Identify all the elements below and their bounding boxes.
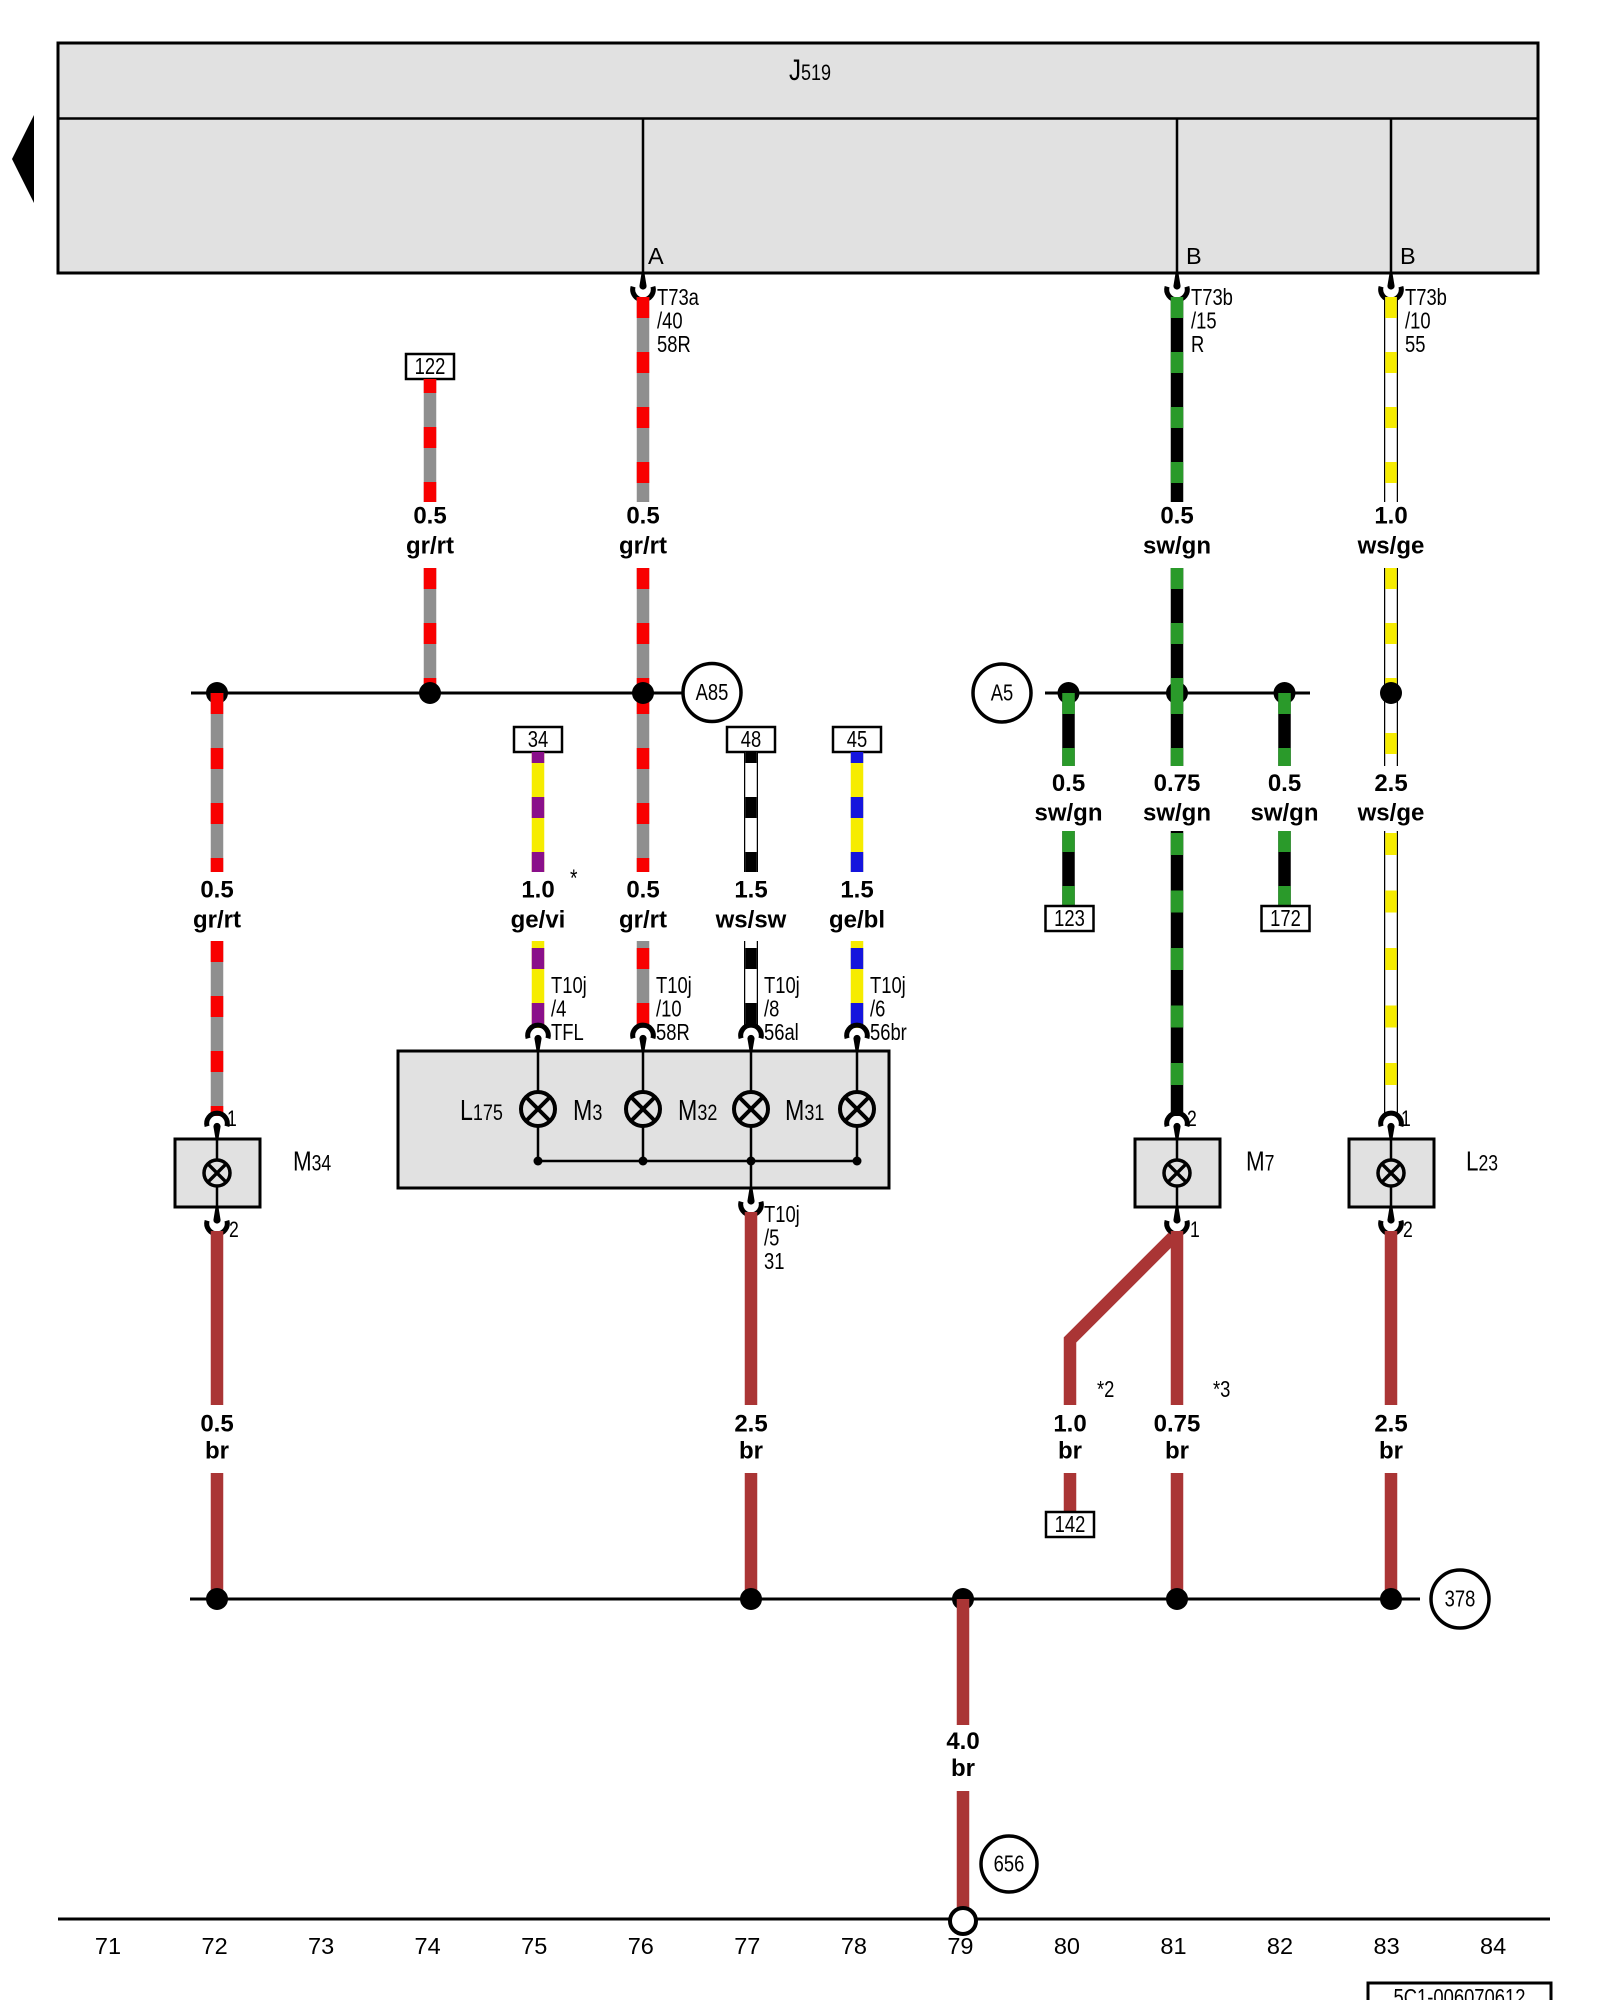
wire 0.5 sw/gn stub at (1284,693): [1278, 693, 1291, 766]
svg-text:73: 73: [308, 1933, 334, 1959]
svg-text:5C1-006070612: 5C1-006070612: [1394, 1985, 1526, 2000]
svg-text:gr/rt: gr/rt: [619, 533, 667, 560]
svg-text:77: 77: [734, 1933, 760, 1959]
wire 0.5 gr/rt to M34 pin 1: [211, 941, 224, 1116]
svg-text:378: 378: [1445, 1587, 1476, 1612]
svg-text:T10j: T10j: [551, 973, 587, 998]
terminal box 34: [514, 727, 562, 753]
svg-text:0.5: 0.5: [413, 503, 446, 530]
wire 0.5 gr/rt below node A85 toward M34: [211, 693, 224, 872]
svg-text:A85: A85: [696, 680, 729, 705]
svg-text:79: 79: [947, 1933, 973, 1959]
svg-text:1: 1: [1190, 1218, 1200, 1242]
svg-text:0.5: 0.5: [1160, 503, 1193, 530]
label 0.5 sw/gn (col 81 upper): [1143, 503, 1211, 560]
label 4.0 br: [946, 1728, 979, 1782]
left edge arrow: [12, 115, 34, 203]
svg-text:A: A: [648, 243, 664, 269]
label 0.75 br: [1154, 1411, 1201, 1465]
label 0.75 sw/gn: [1143, 770, 1211, 827]
svg-text:T10j: T10j: [870, 973, 906, 998]
svg-text:sw/gn: sw/gn: [1034, 800, 1102, 827]
junction dot (1068,693): [1058, 682, 1080, 704]
svg-text:B: B: [1186, 243, 1202, 269]
svg-text:82: 82: [1267, 1933, 1293, 1959]
connector T10j/6 56br: [847, 973, 907, 1052]
svg-text:br: br: [739, 1438, 763, 1465]
svg-text:58R: 58R: [656, 1020, 690, 1045]
wire 0.75 br to ground bus: [1171, 1473, 1184, 1599]
lamp M32: [678, 1092, 768, 1127]
svg-text:71: 71: [95, 1933, 121, 1959]
junction dot (751,1599): [740, 1588, 762, 1610]
wire 1.5 ws/sw to T10j/8: [744, 941, 758, 1028]
svg-text:/15: /15: [1191, 309, 1217, 334]
junction dot (1391,1599): [1380, 1588, 1402, 1610]
terminal box 172: [1262, 906, 1310, 932]
label 1.0 br: [1053, 1411, 1086, 1465]
svg-text:T10j: T10j: [656, 973, 692, 998]
connector pin 1 of L23: [1381, 1107, 1411, 1140]
svg-text:2: 2: [229, 1218, 239, 1242]
svg-text:/4: /4: [551, 997, 566, 1022]
connector pin 2 of M34: [207, 1206, 239, 1243]
svg-text:56al: 56al: [764, 1020, 799, 1045]
lamp M3: [573, 1092, 660, 1127]
svg-text:0.5: 0.5: [626, 503, 659, 530]
wire 4.0 br from ground bus: [957, 1599, 970, 1725]
svg-text:81: 81: [1160, 1933, 1186, 1959]
svg-text:B: B: [1400, 243, 1416, 269]
svg-text:/40: /40: [657, 309, 683, 334]
wire 0.5 br to ground bus: [211, 1473, 224, 1599]
svg-text:0.75: 0.75: [1154, 1411, 1201, 1438]
svg-text:/6: /6: [870, 997, 885, 1022]
svg-text:*2: *2: [1097, 1377, 1114, 1402]
svg-text:gr/rt: gr/rt: [193, 907, 241, 934]
connector T73a/40 58R at J519 pin A: [633, 272, 700, 358]
svg-text:34: 34: [528, 727, 548, 752]
terminal box 123: [1046, 906, 1094, 932]
svg-text:45: 45: [847, 727, 867, 752]
wire 1.5 ge/bl from box 45: [851, 752, 864, 872]
label 2.5 br (col 83): [1374, 1411, 1407, 1465]
svg-text:1.0: 1.0: [1374, 503, 1407, 530]
connector T10j/8 56al: [741, 973, 800, 1052]
wire 0.5 sw/gn from T73b/15 upper segment: [1171, 297, 1184, 502]
wire 0.5 gr/rt below node A85: [637, 693, 650, 872]
connector T10j/10 58R: [633, 973, 692, 1052]
terminal box 45: [833, 727, 881, 753]
svg-text:123: 123: [1054, 906, 1085, 931]
wire 1.0 ws/ge from T73b/10 upper segment: [1384, 297, 1398, 502]
node label 656: [981, 1836, 1037, 1892]
svg-text:ws/ge: ws/ge: [1357, 533, 1425, 560]
lamp M34: [175, 1128, 331, 1218]
svg-text:31: 31: [764, 1249, 784, 1274]
svg-text:142: 142: [1055, 1512, 1086, 1537]
svg-text:/5: /5: [764, 1226, 779, 1251]
junction dot (1391,693): [1380, 682, 1402, 704]
connector pin 1 of M7: [1167, 1206, 1200, 1243]
svg-text:72: 72: [202, 1933, 228, 1959]
svg-text:T10j: T10j: [764, 973, 800, 998]
svg-text:1.0: 1.0: [521, 877, 554, 904]
svg-text:T10j: T10j: [764, 1202, 800, 1227]
svg-text:ws/sw: ws/sw: [715, 907, 787, 934]
svg-text:1.5: 1.5: [734, 877, 767, 904]
terminal box 142: [1046, 1512, 1094, 1538]
svg-text:sw/gn: sw/gn: [1250, 800, 1318, 827]
label 1.0 ws/ge: [1357, 503, 1425, 560]
svg-text:48: 48: [741, 727, 761, 752]
svg-text:sw/gn: sw/gn: [1143, 800, 1211, 827]
wire 1.5 ws/sw from box 48: [744, 752, 758, 872]
wire 2.5 ws/ge to L23 pin 1: [1384, 831, 1398, 1116]
svg-text:122: 122: [415, 354, 446, 379]
svg-text:656: 656: [994, 1852, 1025, 1877]
node label A85: [683, 664, 741, 722]
wire 0.5 sw/gn to box 123: [1062, 831, 1075, 906]
label 1.5 ws/sw: [715, 877, 787, 934]
svg-text:/10: /10: [1405, 309, 1431, 334]
svg-text:M7: M7: [1246, 1146, 1274, 1177]
node label 378: [1431, 1570, 1489, 1628]
wire 0.5 gr/rt from box 122 to node A85: [424, 568, 437, 693]
junction dot (1177,693): [1166, 682, 1188, 704]
label 1.5 ge/bl: [829, 877, 885, 934]
svg-text:2: 2: [1403, 1218, 1413, 1242]
connector pin 2 of M7: [1167, 1107, 1197, 1140]
svg-text:/10: /10: [656, 997, 682, 1022]
svg-text:2.5: 2.5: [1374, 770, 1407, 797]
lamp L23: [1349, 1128, 1498, 1218]
svg-text:ge/vi: ge/vi: [511, 907, 566, 934]
svg-text:A5: A5: [991, 681, 1014, 706]
ground bus wire at node A85: [191, 692, 682, 695]
svg-text:172: 172: [1270, 906, 1301, 931]
svg-text:TFL: TFL: [551, 1020, 584, 1045]
wire 2.5 br from T10j/5: [745, 1212, 758, 1405]
wire 0.5 sw/gn stub at (1068,693): [1062, 693, 1075, 766]
label 0.5 gr/rt (col 76 lower): [619, 877, 667, 934]
svg-text:0.5: 0.5: [1052, 770, 1085, 797]
lamp L175: [460, 1092, 555, 1127]
svg-text:1.0: 1.0: [1053, 1411, 1086, 1438]
connector T10j/4 TFL: [528, 973, 587, 1052]
wire 1.0 br to box 142: [1064, 1473, 1077, 1512]
svg-text:0.5: 0.5: [200, 1411, 233, 1438]
svg-text:2.5: 2.5: [734, 1411, 767, 1438]
wire 2.5 br to ground bus: [745, 1473, 758, 1599]
wire 1.0 br diagonal branch from M7 pin 1: [1070, 1237, 1173, 1405]
junction dot (1177,1599): [1166, 1588, 1188, 1610]
wire 0.75 br from M7 pin 1: [1171, 1231, 1184, 1405]
junction dot (643,693): [632, 682, 654, 704]
wire 1.0 ge/vi to T10j/4: [532, 941, 545, 1028]
J519 pin B line (T73b/15): [1177, 119, 1202, 274]
label *3: [1213, 1377, 1230, 1402]
svg-text:1: 1: [1401, 1107, 1411, 1131]
svg-text:78: 78: [841, 1933, 867, 1959]
svg-text:4.0: 4.0: [946, 1728, 979, 1755]
svg-text:56br: 56br: [870, 1020, 907, 1045]
svg-text:M34: M34: [293, 1146, 331, 1177]
svg-text:sw/gn: sw/gn: [1143, 533, 1211, 560]
label 0.5 gr/rt (col 76 upper): [619, 503, 667, 560]
svg-text:br: br: [951, 1755, 975, 1782]
svg-text:1.5: 1.5: [840, 877, 873, 904]
ground point symbol: [950, 1908, 976, 1934]
wire 0.5 sw/gn to box 172: [1278, 831, 1291, 906]
svg-text:0.5: 0.5: [626, 877, 659, 904]
svg-text:*3: *3: [1213, 1377, 1230, 1402]
lamp cluster box: [398, 1051, 889, 1188]
node label A5: [973, 664, 1031, 722]
svg-text:T73a: T73a: [657, 285, 699, 310]
wire 0.5 sw/gn to node A5: [1171, 568, 1184, 693]
ground bus wire 378: [190, 1598, 1420, 1601]
connector pin 1 of M34: [207, 1107, 237, 1140]
wire 1.0 ws/ge to junction: [1384, 568, 1398, 766]
svg-text:ws/ge: ws/ge: [1357, 800, 1425, 827]
terminal box 122: [406, 354, 454, 380]
connector pin 2 of L23: [1381, 1206, 1413, 1243]
grid scale numbers 71-84: [95, 1933, 1506, 1959]
label 2.5 ws/ge: [1357, 770, 1425, 827]
wire 0.5 gr/rt to T10j/10: [637, 941, 650, 1028]
label 0.5 gr/rt (col 74): [406, 503, 454, 560]
svg-text:T73b: T73b: [1405, 285, 1447, 310]
label 0.5 sw/gn (col 80): [1034, 770, 1102, 827]
label 0.5 br (col 72): [200, 1411, 233, 1465]
svg-text:2: 2: [1187, 1107, 1197, 1131]
lamp M31: [785, 1092, 874, 1127]
svg-text:br: br: [1165, 1438, 1189, 1465]
svg-text:1: 1: [227, 1107, 237, 1131]
svg-text:83: 83: [1374, 1933, 1400, 1959]
diagram number box: [1368, 1983, 1551, 2000]
svg-text:58R: 58R: [657, 332, 691, 357]
label 0.5 sw/gn (col 82): [1250, 770, 1318, 827]
label 1.0 ge/vi: [511, 864, 578, 934]
svg-text:2.5: 2.5: [1374, 1411, 1407, 1438]
J519 pin A line: [643, 119, 664, 274]
junction dot (217,693): [206, 682, 228, 704]
connector T73b/15 R at J519 pin B: [1167, 272, 1233, 358]
svg-text:80: 80: [1054, 1933, 1080, 1959]
svg-text:T73b: T73b: [1191, 285, 1233, 310]
connector T10j/5 31: [741, 1187, 800, 1275]
svg-text:0.75: 0.75: [1154, 770, 1201, 797]
svg-text:R: R: [1191, 332, 1204, 357]
svg-text:L23: L23: [1466, 1146, 1498, 1177]
svg-text:br: br: [1058, 1438, 1082, 1465]
svg-text:74: 74: [415, 1933, 441, 1959]
svg-text:gr/rt: gr/rt: [619, 907, 667, 934]
svg-text:gr/rt: gr/rt: [406, 533, 454, 560]
svg-text:*: *: [570, 864, 578, 892]
wire 1.5 ge/bl to T10j/6: [851, 941, 864, 1028]
junction dot (217,1599): [206, 1588, 228, 1610]
svg-text:/8: /8: [764, 997, 779, 1022]
wire 0.5 br from M34 pin 2: [211, 1231, 224, 1405]
wire 2.5 br to ground bus: [1385, 1473, 1398, 1599]
label 2.5 br (col 77): [734, 1411, 767, 1465]
wire 0.5 gr/rt from box 122: [424, 379, 437, 502]
terminal box 48: [727, 727, 775, 753]
svg-text:55: 55: [1405, 332, 1425, 357]
junction dot (1284,693): [1274, 682, 1296, 704]
svg-text:75: 75: [521, 1933, 547, 1959]
wire 2.5 br from L23 pin 2: [1385, 1231, 1398, 1405]
bus wire at node A5: [1045, 692, 1310, 695]
junction dot (963,1599): [952, 1588, 974, 1610]
wire 0.5 gr/rt to node A85: [637, 568, 650, 693]
bottom frame line: [58, 1918, 1550, 1921]
wire 4.0 br to ground point 656: [957, 1791, 970, 1908]
svg-text:0.5: 0.5: [200, 877, 233, 904]
connector T73b/10 55 at J519 pin B: [1381, 272, 1447, 358]
wire 1.0 ge/vi from box 34: [532, 752, 545, 872]
label *2: [1097, 1377, 1114, 1402]
J519 pin B line (T73b/10): [1391, 119, 1416, 274]
svg-text:br: br: [1379, 1438, 1403, 1465]
svg-text:76: 76: [628, 1933, 654, 1959]
label 0.5 gr/rt (col 72): [193, 877, 241, 934]
svg-text:0.5: 0.5: [1268, 770, 1301, 797]
svg-text:br: br: [205, 1438, 229, 1465]
wire 0.75 sw/gn to M7 pin 2: [1171, 831, 1184, 1116]
control unit J519 box: [58, 43, 1538, 273]
junction dot (430,693): [419, 682, 441, 704]
svg-text:ge/bl: ge/bl: [829, 907, 885, 934]
svg-text:84: 84: [1480, 1933, 1506, 1959]
lamp M7: [1135, 1128, 1274, 1218]
wire 0.5 gr/rt from T73a upper segment: [637, 297, 650, 502]
wire 0.75 sw/gn below node A5: [1171, 693, 1184, 766]
